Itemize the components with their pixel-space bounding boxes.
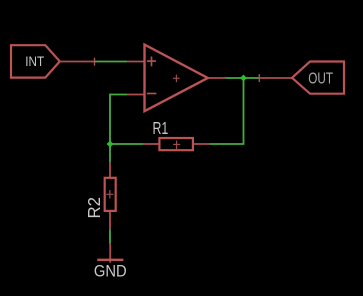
op-amp U1 origin cross xyxy=(173,75,180,83)
resistor R1 left pin xyxy=(144,143,160,145)
wire net (op-amp out to junction to OUT) xyxy=(226,77,260,79)
wire net feedback vertical (junction down to R1 right) xyxy=(209,78,243,144)
svg-text:GND: GND xyxy=(94,262,127,280)
op-amp U1 body xyxy=(145,45,208,112)
junction at inverting node xyxy=(107,141,114,148)
op-amp U1 minus mark xyxy=(147,93,157,95)
op-amp U1 OUT pin xyxy=(208,77,226,79)
junction at output node xyxy=(240,75,247,82)
pin of OUT port xyxy=(259,77,292,79)
pin of INT port xyxy=(60,61,95,63)
resistor R1 right pin xyxy=(193,143,209,145)
resistor R2 origin cross xyxy=(106,190,113,199)
resistor R2 body xyxy=(105,178,116,211)
wire net (R2 to GND) xyxy=(109,230,111,244)
op-amp U1 -IN pin xyxy=(127,94,145,96)
op-amp U1 plus mark xyxy=(147,57,156,67)
pin end cross OUT xyxy=(258,74,260,82)
svg-text:INT: INT xyxy=(25,53,44,69)
wire net (node to R1 left) xyxy=(110,143,144,145)
svg-text:OUT: OUT xyxy=(308,70,333,87)
port INT xyxy=(11,45,60,77)
ground GND bar xyxy=(97,259,123,261)
wire net (- input to node) xyxy=(110,95,127,163)
wire net N$1 (INT to op-amp +) xyxy=(95,61,128,63)
port OUT xyxy=(292,62,344,94)
svg-text:R2: R2 xyxy=(84,197,104,219)
resistor R2 bottom pin xyxy=(109,211,111,230)
op-amp U1 +IN pin xyxy=(127,61,145,63)
svg-text:R1: R1 xyxy=(153,118,169,138)
pin end cross INT xyxy=(94,58,96,66)
resistor R2 top pin xyxy=(109,162,111,177)
resistor R1 origin cross xyxy=(173,141,180,150)
resistor R1 body xyxy=(159,138,193,150)
ground GND pin xyxy=(109,244,111,263)
